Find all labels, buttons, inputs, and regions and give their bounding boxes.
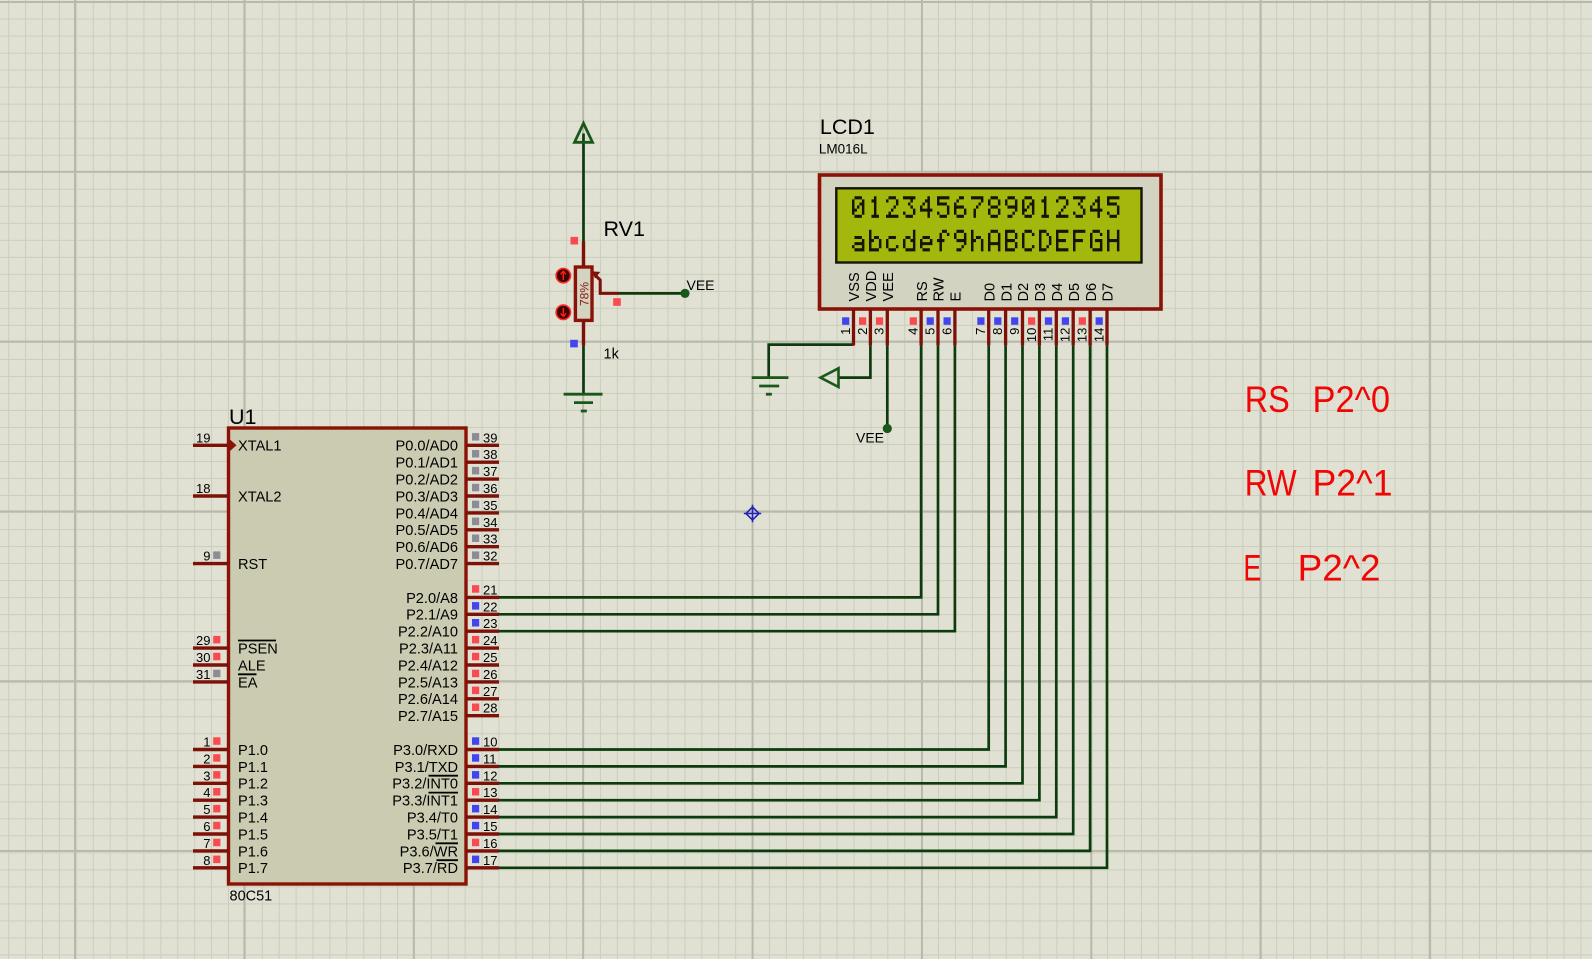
svg-text:RW: RW xyxy=(932,277,948,301)
power symbol VDD (left-pointing arrow) xyxy=(821,368,839,387)
svg-text:P3.1/TXD: P3.1/TXD xyxy=(395,760,458,776)
annotation RS P2^0 xyxy=(1245,379,1390,420)
svg-text:P0.4/AD4: P0.4/AD4 xyxy=(396,506,458,522)
wire D4 net: U1 P3.4 to LCD D4 xyxy=(499,345,1056,817)
svg-text:E: E xyxy=(1243,548,1261,589)
power symbol (up arrow) above RV1 xyxy=(575,123,593,142)
LCD display text row 2 xyxy=(852,230,1119,252)
LCD1 pin 3 (VEE) xyxy=(872,272,897,345)
U1 pin 8 (P1.7) xyxy=(193,853,268,877)
node VEE (at RV1 wiper) xyxy=(680,289,689,298)
svg-text:27: 27 xyxy=(483,684,497,699)
U1 pin 21 (P2.0/A8) xyxy=(406,582,499,606)
U1 pin 16 (P3.6/WR) xyxy=(400,836,499,860)
svg-text:8: 8 xyxy=(990,328,1005,335)
LCD1 pin 2 (VDD) xyxy=(855,271,880,346)
svg-text:78%: 78% xyxy=(577,282,591,306)
svg-text:37: 37 xyxy=(483,464,497,479)
U1 pin 23 (P2.2/A10) xyxy=(398,616,499,640)
svg-text:P0.0/AD0: P0.0/AD0 xyxy=(396,439,458,455)
wire D1 net: U1 P3.1 to LCD D1 xyxy=(499,345,1006,766)
svg-text:LM016L: LM016L xyxy=(819,141,868,156)
svg-text:VEE: VEE xyxy=(856,430,884,446)
svg-text:ALE: ALE xyxy=(238,658,266,674)
svg-text:VSS: VSS xyxy=(847,272,863,301)
wire RV1 top to power xyxy=(582,134,585,242)
U1 pin 38 (P0.1/AD1) xyxy=(396,447,499,471)
svg-text:LCD1: LCD1 xyxy=(820,115,875,139)
U1 pin 2 (P1.1) xyxy=(193,751,268,775)
wire E net: U1 P2.2 to LCD E xyxy=(499,345,955,631)
svg-text:P0.2/AD2: P0.2/AD2 xyxy=(396,473,458,489)
svg-text:RST: RST xyxy=(238,557,267,573)
svg-text:P3.6/WR: P3.6/WR xyxy=(400,844,458,860)
svg-text:P2.3/A11: P2.3/A11 xyxy=(399,642,458,658)
svg-text:P3.4/T0: P3.4/T0 xyxy=(407,811,458,827)
wire D3 net: U1 P3.3 to LCD D3 xyxy=(499,345,1039,800)
LCD LCD1 LM016L body xyxy=(819,115,1161,309)
svg-text:D4: D4 xyxy=(1050,283,1066,302)
LCD screen xyxy=(836,188,1141,262)
svg-text:12: 12 xyxy=(483,768,497,783)
svg-text:7: 7 xyxy=(973,328,988,335)
svg-text:12: 12 xyxy=(1058,328,1073,342)
svg-text:13: 13 xyxy=(483,785,497,800)
svg-text:P3.0/RXD: P3.0/RXD xyxy=(393,743,458,759)
U1 pin 3 (P1.2) xyxy=(193,768,268,792)
U1 pin 29 (PSEN) xyxy=(193,633,278,657)
svg-text:3: 3 xyxy=(872,328,887,335)
U1 pin 32 (P0.7/AD7) xyxy=(396,549,499,573)
U1 pin 37 (P0.2/AD2) xyxy=(396,464,499,488)
LCD1 pin 6 (E) xyxy=(939,292,964,346)
svg-text:38: 38 xyxy=(483,447,497,462)
U1 pin 35 (P0.4/AD4) xyxy=(396,498,499,522)
svg-text:P1.2: P1.2 xyxy=(238,777,268,793)
svg-text:1: 1 xyxy=(838,328,853,335)
svg-text:P3.5/T1: P3.5/T1 xyxy=(407,827,458,843)
svg-text:P0.7/AD7: P0.7/AD7 xyxy=(396,557,458,573)
LCD1 pin 7 (D0) xyxy=(973,283,998,346)
svg-text:1: 1 xyxy=(203,735,210,750)
svg-text:24: 24 xyxy=(483,633,497,648)
svg-text:EA: EA xyxy=(238,675,258,691)
U1 pin 5 (P1.4) xyxy=(193,802,268,826)
wire RS net: U1 P2.0 to LCD RS xyxy=(499,345,921,597)
U1 pin 36 (P0.3/AD3) xyxy=(396,481,499,505)
LCD1 pin 5 (RW) xyxy=(922,277,947,345)
svg-text:32: 32 xyxy=(483,549,497,564)
svg-text:P1.3: P1.3 xyxy=(238,794,268,810)
svg-text:31: 31 xyxy=(196,667,210,682)
svg-text:P0.3/AD3: P0.3/AD3 xyxy=(396,489,458,505)
svg-text:18: 18 xyxy=(196,481,210,496)
origin marker (blue crosshair) xyxy=(744,505,761,522)
U1 pin 13 (P3.3/INT1) xyxy=(392,785,499,809)
U1 pin 27 (P2.6/A14) xyxy=(398,684,499,708)
svg-text:80C51: 80C51 xyxy=(230,889,273,905)
svg-text:P3.2/INT0: P3.2/INT0 xyxy=(392,777,458,793)
U1 pin 9 (RST) xyxy=(193,549,267,573)
U1 pin 39 (P0.0/AD0) xyxy=(396,430,499,454)
U1 pin 33 (P0.6/AD6) xyxy=(396,532,499,556)
LCD1 pin 1 (VSS) xyxy=(838,272,863,345)
svg-text:D6: D6 xyxy=(1084,283,1100,302)
U1 pin 18 (XTAL2) xyxy=(193,481,282,505)
svg-text:29: 29 xyxy=(196,633,210,648)
U1 pin 1 (P1.0) xyxy=(193,735,268,759)
svg-text:VDD: VDD xyxy=(864,271,880,302)
svg-text:P2.5/A13: P2.5/A13 xyxy=(398,675,458,691)
svg-text:D3: D3 xyxy=(1033,283,1049,302)
svg-text:P2.0/A8: P2.0/A8 xyxy=(406,591,458,607)
LCD1 pin 13 (D6) xyxy=(1075,283,1100,346)
svg-text:P3.7/RD: P3.7/RD xyxy=(403,861,458,877)
RV1 increment button xyxy=(556,268,570,282)
svg-text:D5: D5 xyxy=(1067,283,1083,302)
U1 pin 14 (P3.4/T0) xyxy=(407,802,499,826)
svg-text:XTAL1: XTAL1 xyxy=(238,439,282,455)
svg-text:D2: D2 xyxy=(1016,283,1032,302)
svg-text:P0.5/AD5: P0.5/AD5 xyxy=(396,523,458,539)
svg-text:10: 10 xyxy=(1024,328,1039,342)
svg-text:P0.1/AD1: P0.1/AD1 xyxy=(396,456,458,472)
svg-text:3: 3 xyxy=(203,768,210,783)
svg-text:XTAL2: XTAL2 xyxy=(238,489,282,505)
svg-text:35: 35 xyxy=(483,498,497,513)
svg-text:RS: RS xyxy=(915,281,931,302)
svg-text:P2.2/A10: P2.2/A10 xyxy=(398,625,458,641)
svg-text:8: 8 xyxy=(203,853,210,868)
svg-text:22: 22 xyxy=(483,599,497,614)
LCD1 pin 4 (RS) xyxy=(906,281,931,345)
U1 pin 31 (EA) xyxy=(193,667,258,691)
U1 pin 30 (ALE) xyxy=(193,650,266,674)
svg-text:P3.3/INT1: P3.3/INT1 xyxy=(392,794,458,810)
svg-text:13: 13 xyxy=(1075,328,1090,342)
svg-text:28: 28 xyxy=(483,701,497,716)
svg-text:P1.0: P1.0 xyxy=(238,743,268,759)
svg-text:P1.6: P1.6 xyxy=(238,844,268,860)
svg-text:30: 30 xyxy=(196,650,210,665)
svg-text:P2.6/A14: P2.6/A14 xyxy=(398,692,458,708)
svg-text:P2.7/A15: P2.7/A15 xyxy=(398,709,458,725)
svg-text:2: 2 xyxy=(203,751,210,766)
svg-text:P1.7: P1.7 xyxy=(238,861,268,877)
svg-text:9: 9 xyxy=(1007,328,1022,335)
wire VEE net: LCD pin3 down to VEE terminal xyxy=(886,345,889,428)
U1 pin 34 (P0.5/AD5) xyxy=(396,515,499,539)
svg-text:P2.1/A9: P2.1/A9 xyxy=(406,608,458,624)
U1 pin 24 (P2.3/A11) xyxy=(399,633,499,657)
svg-text:PSEN: PSEN xyxy=(238,642,278,658)
RV1 wiper arrow and pin xyxy=(592,271,621,305)
svg-text:VEE: VEE xyxy=(687,277,715,293)
U1 pin 4 (P1.3) xyxy=(193,785,268,809)
LCD1 pin 11 (D4) xyxy=(1041,283,1066,346)
svg-text:14: 14 xyxy=(483,802,497,817)
svg-text:33: 33 xyxy=(483,532,497,547)
wire D6 net: U1 P3.6 to LCD D6 xyxy=(499,345,1090,851)
svg-text:11: 11 xyxy=(483,751,497,766)
svg-text:39: 39 xyxy=(483,430,497,445)
node VEE (LCD contrast) xyxy=(883,424,892,433)
U1 pin 17 (P3.7/RD) xyxy=(403,853,499,877)
wire VSS net: LCD pin1 to ground xyxy=(769,345,854,378)
LCD1 pin 12 (D5) xyxy=(1058,283,1083,346)
U1 pin 7 (P1.6) xyxy=(193,836,268,860)
svg-text:D7: D7 xyxy=(1101,283,1117,302)
resistor RV1 1k potentiometer xyxy=(570,217,645,363)
svg-text:23: 23 xyxy=(483,616,497,631)
annotation E P2^2 xyxy=(1243,548,1380,589)
U1 pin 11 (P3.1/TXD) xyxy=(395,751,499,775)
wire VDD net: LCD pin2 to power xyxy=(839,345,871,377)
wire RV1 wiper to VEE xyxy=(619,292,685,295)
svg-text:36: 36 xyxy=(483,481,497,496)
U1 pin 15 (P3.5/T1) xyxy=(407,819,499,843)
svg-text:16: 16 xyxy=(483,836,497,851)
svg-text:7: 7 xyxy=(203,836,210,851)
svg-text:9: 9 xyxy=(203,549,210,564)
svg-text:19: 19 xyxy=(196,430,210,445)
svg-text:11: 11 xyxy=(1041,328,1056,342)
U1 pin 12 (P3.2/INT0) xyxy=(392,768,499,792)
svg-text:D0: D0 xyxy=(982,283,998,302)
svg-text:4: 4 xyxy=(906,328,921,335)
U1 pin 28 (P2.7/A15) xyxy=(398,701,499,725)
U1 pin 10 (P3.0/RXD) xyxy=(393,735,499,759)
wire RV1 bottom to ground xyxy=(582,346,585,395)
svg-text:4: 4 xyxy=(203,785,210,800)
svg-text:25: 25 xyxy=(483,650,497,665)
svg-text:RS: RS xyxy=(1245,379,1290,420)
U1 pin 25 (P2.4/A12) xyxy=(398,650,499,674)
U1 pin 26 (P2.5/A13) xyxy=(398,667,499,691)
wire D0 net: U1 P3.0 to LCD D0 xyxy=(499,345,989,749)
svg-text:P1.5: P1.5 xyxy=(238,827,268,843)
svg-text:6: 6 xyxy=(203,819,210,834)
svg-text:D1: D1 xyxy=(999,283,1015,302)
wire D7 net: U1 P3.7 to LCD D7 xyxy=(499,345,1107,867)
LCD1 pin 14 (D7) xyxy=(1091,283,1116,346)
svg-text:P2^1: P2^1 xyxy=(1313,463,1393,504)
svg-text:1k: 1k xyxy=(604,347,620,363)
svg-text:15: 15 xyxy=(483,819,497,834)
IC U1 80C51 body xyxy=(229,405,467,905)
U1 pin 22 (P2.1/A9) xyxy=(406,599,499,623)
svg-text:5: 5 xyxy=(203,802,210,817)
ground (RV1) xyxy=(564,394,603,411)
svg-text:P2^0: P2^0 xyxy=(1313,379,1391,420)
LCD display text row 1 xyxy=(852,196,1119,218)
svg-text:P2.4/A12: P2.4/A12 xyxy=(398,658,458,674)
svg-text:10: 10 xyxy=(483,735,497,750)
wire RW net: U1 P2.1 to LCD RW xyxy=(499,345,938,614)
svg-text:5: 5 xyxy=(922,328,937,335)
LCD1 pin 8 (D1) xyxy=(990,283,1015,346)
svg-text:U1: U1 xyxy=(229,405,256,429)
ground (LCD VSS) xyxy=(752,378,789,395)
svg-text:2: 2 xyxy=(855,328,870,335)
svg-text:RV1: RV1 xyxy=(604,217,645,241)
svg-text:P2^2: P2^2 xyxy=(1298,548,1381,589)
wire D2 net: U1 P3.2 to LCD D2 xyxy=(499,345,1023,783)
svg-text:P0.6/AD6: P0.6/AD6 xyxy=(396,540,458,556)
LCD1 pin 9 (D2) xyxy=(1007,283,1032,346)
svg-text:34: 34 xyxy=(483,515,497,530)
svg-text:14: 14 xyxy=(1091,328,1106,342)
svg-text:VEE: VEE xyxy=(881,272,897,301)
svg-text:26: 26 xyxy=(483,667,497,682)
LCD1 pin 10 (D3) xyxy=(1024,283,1049,346)
svg-text:6: 6 xyxy=(939,328,954,335)
svg-text:E: E xyxy=(949,292,965,302)
svg-text:P1.4: P1.4 xyxy=(238,811,268,827)
U1 pin 19 (XTAL1) xyxy=(193,430,282,454)
wire D5 net: U1 P3.5 to LCD D5 xyxy=(499,345,1073,834)
U1 pin 6 (P1.5) xyxy=(193,819,268,843)
svg-text:17: 17 xyxy=(483,853,497,868)
svg-text:RW: RW xyxy=(1245,463,1297,504)
svg-text:P1.1: P1.1 xyxy=(238,760,268,776)
annotation RW P2^1 xyxy=(1245,463,1393,504)
RV1 decrement button xyxy=(556,305,570,319)
svg-text:21: 21 xyxy=(483,582,497,597)
